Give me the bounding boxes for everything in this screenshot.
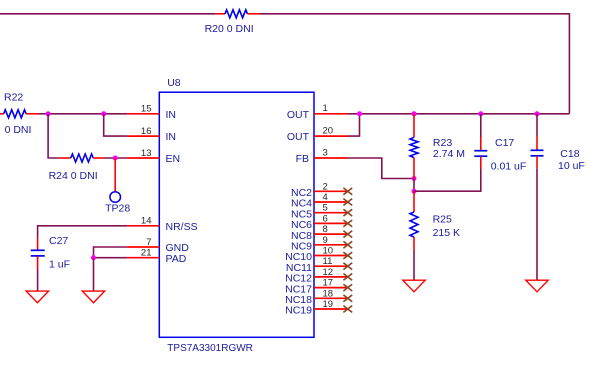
svg-text:15: 15	[141, 104, 152, 115]
svg-text:215 K: 215 K	[433, 227, 460, 239]
wire pad node to ground	[93, 258, 95, 291]
svg-text:IN: IN	[166, 131, 177, 143]
pin 4 (NC4) stub	[314, 201, 348, 203]
wire FB to divider node	[348, 158, 414, 179]
svg-text:4: 4	[323, 192, 328, 203]
junction pad node	[91, 255, 96, 260]
svg-text:1 uF: 1 uF	[49, 258, 70, 270]
svg-text:2.74 M: 2.74 M	[433, 148, 465, 160]
pin 13 stub	[127, 157, 159, 159]
ground below pad node	[82, 291, 104, 303]
svg-text:C17: C17	[495, 137, 514, 149]
svg-text:R20 0 DNI: R20 0 DNI	[205, 23, 254, 35]
ground below C18	[526, 280, 548, 292]
resistor R23	[410, 114, 418, 179]
svg-text:3: 3	[323, 147, 328, 158]
svg-text:10: 10	[323, 246, 334, 257]
no-connect X on pin 18	[343, 295, 352, 302]
wire top net, left edge to R20	[0, 13, 215, 15]
pin 7 stub	[127, 246, 159, 248]
pin 8 (NC8) stub	[314, 233, 348, 235]
junction node B	[101, 111, 106, 116]
wire OUT pin20 up to pin1 net	[348, 114, 360, 136]
wire node A to node B	[48, 113, 104, 115]
junction node EN/TP28	[113, 156, 118, 161]
junction OUT-1	[357, 111, 362, 116]
pin 5 (NC5) stub	[314, 212, 348, 214]
svg-text:C27: C27	[49, 235, 68, 247]
svg-text:C18: C18	[560, 148, 579, 160]
svg-text:16: 16	[141, 126, 152, 137]
no-connect X on pin 4	[343, 199, 352, 206]
junction OUT-R23	[412, 111, 417, 116]
svg-text:IN: IN	[166, 109, 177, 121]
resistor R22	[0, 110, 39, 118]
svg-text:18: 18	[323, 288, 334, 299]
pin 20 stub	[314, 135, 348, 137]
svg-text:PAD: PAD	[166, 253, 187, 265]
svg-text:FB: FB	[296, 153, 309, 165]
pin 10 (NC10) stub	[314, 255, 348, 257]
wire C17 to divider node	[414, 169, 481, 191]
wire node B to pin 15	[104, 113, 128, 115]
svg-text:OUT: OUT	[287, 109, 310, 121]
resistor R24	[60, 154, 104, 162]
wire R22 to node A	[39, 113, 49, 115]
wire down to TP28	[114, 158, 116, 192]
svg-text:17: 17	[323, 278, 334, 289]
pin 21 stub	[127, 257, 159, 259]
wire C18 to ground	[536, 169, 538, 281]
pin 12 (NC12) stub	[314, 276, 348, 278]
svg-text:U8: U8	[167, 77, 181, 89]
no-connect X on pin 5	[343, 209, 352, 216]
wire R25 to ground	[413, 250, 415, 280]
svg-text:14: 14	[141, 216, 152, 227]
svg-text:10 uF: 10 uF	[558, 160, 585, 172]
junction divider/C17 node	[412, 189, 417, 194]
svg-text:5: 5	[323, 203, 328, 214]
no-connect X on pin 9	[343, 241, 352, 248]
wire C27 to ground	[37, 270, 39, 292]
wire pin 21 to pad node	[94, 257, 128, 259]
svg-text:R23: R23	[433, 137, 452, 149]
IC U8 body	[159, 92, 314, 337]
svg-text:TP28: TP28	[105, 202, 130, 214]
pin 6 (NC6) stub	[314, 222, 348, 224]
pin 15 stub	[127, 113, 159, 115]
svg-text:R22: R22	[4, 91, 23, 103]
wire R24 to pin 13	[104, 157, 128, 159]
wire pin 7 to pad node	[94, 247, 128, 258]
junction OUT-C17	[478, 111, 483, 116]
pin 18 (NC18) stub	[314, 297, 348, 299]
svg-text:OUT: OUT	[287, 131, 310, 143]
capacitor C17	[474, 137, 487, 169]
wire node A down to R24	[48, 114, 60, 158]
svg-text:6: 6	[323, 213, 328, 224]
svg-text:1: 1	[323, 103, 328, 114]
svg-text:EN: EN	[166, 153, 181, 165]
svg-text:R25: R25	[433, 214, 452, 226]
svg-text:11: 11	[323, 256, 333, 267]
svg-text:19: 19	[323, 299, 334, 310]
svg-text:0.01 uF: 0.01 uF	[491, 160, 527, 172]
test point TP28	[110, 192, 121, 203]
no-connect X on pin 17	[343, 284, 352, 291]
pin 3 stub	[314, 157, 348, 159]
junction node A	[46, 111, 51, 116]
resistor R20	[215, 10, 259, 18]
svg-text:20: 20	[323, 126, 334, 137]
junction FB node	[412, 176, 417, 181]
svg-text:NC19: NC19	[285, 305, 312, 317]
svg-text:21: 21	[141, 248, 152, 259]
pin 9 (NC9) stub	[314, 244, 348, 246]
no-connect X on pin 6	[343, 220, 352, 227]
pin 1 stub	[314, 113, 348, 115]
no-connect X on pin 8	[343, 231, 352, 238]
svg-text:9: 9	[323, 235, 328, 246]
no-connect X on pin 12	[343, 274, 352, 281]
wire OUT pin1 to right corner	[348, 113, 569, 115]
pin 2 (NC2) stub	[314, 190, 348, 192]
pin 19 (NC19) stub	[314, 308, 348, 310]
resistor R25	[410, 191, 418, 250]
svg-text:8: 8	[323, 224, 328, 235]
capacitor C27	[31, 238, 45, 269]
junction OUT-C18	[535, 111, 540, 116]
svg-text:NR/SS: NR/SS	[166, 221, 198, 233]
svg-text:7: 7	[146, 237, 151, 248]
pin 14 stub	[127, 225, 159, 227]
wire pin 14 to C27 branch	[38, 226, 128, 239]
no-connect X on pin 10	[343, 252, 352, 259]
pin 16 stub	[127, 135, 159, 137]
ground below R25	[403, 280, 425, 292]
pin 11 (NC11) stub	[314, 265, 348, 267]
svg-text:R24 0 DNI: R24 0 DNI	[49, 170, 98, 182]
pin 17 (NC17) stub	[314, 287, 348, 289]
wire FB node to C17 node	[413, 179, 415, 192]
wire top net, R20 to right corner then down to OUT node	[260, 14, 570, 114]
svg-text:12: 12	[323, 267, 334, 278]
no-connect X on pin 2	[343, 188, 352, 195]
ground below C27	[26, 291, 48, 303]
svg-text:2: 2	[323, 181, 328, 192]
wire OUT to C18	[536, 114, 538, 137]
wire OUT to C17	[480, 114, 482, 137]
svg-text:TPS7A3301RGWR: TPS7A3301RGWR	[167, 343, 253, 354]
capacitor C18	[531, 136, 544, 168]
no-connect X on pin 11	[343, 263, 352, 270]
no-connect X on pin 19	[343, 306, 352, 313]
svg-text:13: 13	[141, 148, 152, 159]
svg-text:0 DNI: 0 DNI	[5, 124, 32, 136]
wire node B down to pin 16	[104, 114, 128, 136]
